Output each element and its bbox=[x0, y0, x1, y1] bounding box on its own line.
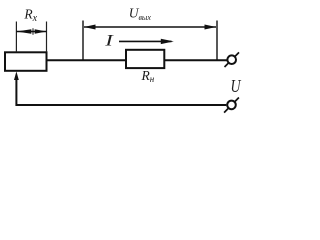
dimension Uvyh: arrow line bbox=[84, 26, 216, 28]
svg-text:Rн: Rн bbox=[141, 68, 155, 84]
dimension Uvyh: right extension bar bbox=[216, 21, 218, 61]
dimension Uvyh: right arrowhead bbox=[205, 25, 217, 30]
svg-text:Uвых: Uвых bbox=[129, 6, 152, 23]
terminal bottom: slash bbox=[224, 98, 239, 113]
dimension Rx: double-headed arrow bbox=[16, 31, 46, 33]
dimension Rx: centre tick bbox=[32, 28, 34, 34]
dimension Uvyh: left arrowhead bbox=[84, 25, 96, 30]
wire: wiper arrow shaft and bottom return wire bbox=[16, 80, 226, 106]
resistor Rn (load) bbox=[126, 50, 164, 68]
resistor R (rheostat body, variable divider) bbox=[5, 52, 47, 71]
dimension Rx: right extension tick (rheostat end) bbox=[46, 22, 48, 53]
current arrow I bbox=[119, 40, 172, 42]
terminal top: slash bbox=[225, 52, 240, 67]
svg-text:U: U bbox=[231, 76, 242, 96]
dimension Rx: left extension tick (wiper position) bbox=[15, 22, 17, 53]
terminal bottom: circle bbox=[227, 101, 236, 110]
wiper arrowhead into rheostat bbox=[14, 71, 19, 80]
terminal top: circle bbox=[227, 55, 236, 64]
dimension Uvyh: left extension bar bbox=[82, 21, 84, 61]
wire: middle horizontal from rheostat output to top terminal bbox=[46, 59, 227, 61]
svg-text:I: I bbox=[104, 32, 114, 49]
svg-text:Rx: Rx bbox=[23, 7, 37, 24]
